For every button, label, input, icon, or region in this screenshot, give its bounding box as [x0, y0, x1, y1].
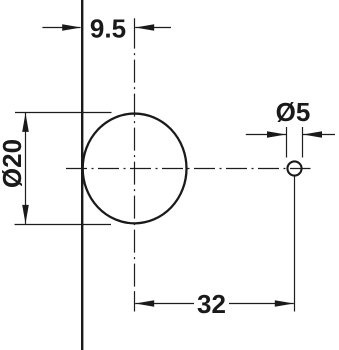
dim 9.5 right leader line	[135, 27, 171, 29]
panel edge line	[81, 0, 83, 350]
dim Ø5 left extension line	[286, 127, 288, 158]
dim Ø5 left leader line	[246, 134, 286, 136]
vertical centerline solid top (extension for 9.5)	[134, 18, 136, 48]
svg-text:32: 32	[197, 289, 226, 319]
svg-text:Ø20: Ø20	[0, 139, 27, 188]
hole circle Ø5	[287, 161, 301, 175]
vertical centerline solid bottom (extension for 32)	[134, 293, 136, 312]
dim 32 left arrowhead	[135, 300, 154, 307]
hole circle Ø20	[83, 114, 187, 224]
horizontal centerline dash-dot	[66, 168, 311, 170]
dim Ø20 top extension line	[15, 112, 112, 114]
dim Ø5 right extension line	[302, 127, 304, 158]
svg-text:Ø5: Ø5	[276, 97, 311, 127]
dim Ø20 bottom extension line	[15, 224, 112, 226]
dim 32 line right segment	[229, 303, 294, 305]
dim 32 line left segment	[135, 303, 194, 305]
dim 9.5 left arrowhead	[62, 24, 81, 31]
dim 32 right arrowhead	[275, 300, 294, 307]
dim Ø20 bottom arrowhead	[22, 205, 29, 224]
small circle lower extension line	[294, 177, 296, 312]
dim Ø20 dimension line	[25, 113, 27, 224]
svg-text:9.5: 9.5	[90, 13, 126, 43]
dim Ø20 top arrowhead	[22, 113, 29, 132]
dim Ø5 left arrowhead	[267, 131, 286, 138]
dim 9.5 left leader line	[42, 27, 80, 29]
dim 9.5 right arrowhead	[135, 24, 154, 31]
vertical centerline dash-dot	[134, 53, 136, 294]
dim Ø5 right arrowhead	[303, 131, 322, 138]
dim Ø5 right leader line	[303, 134, 335, 136]
